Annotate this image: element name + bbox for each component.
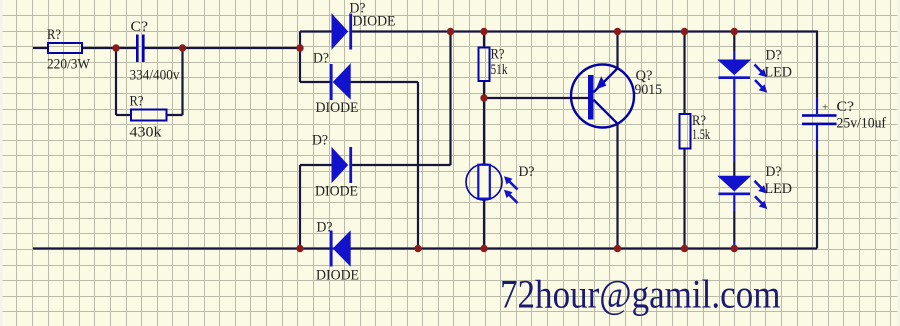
resistor R2 bbox=[131, 110, 167, 121]
wire R3 leg x484 bbox=[483, 32, 485, 249]
svg-text:DIODE: DIODE bbox=[316, 100, 359, 116]
junction node main-C1-right bbox=[179, 44, 186, 51]
svg-text:D?: D? bbox=[766, 48, 782, 64]
wire base y98 bbox=[484, 97, 588, 99]
wire LED chain x734.3 bbox=[733, 32, 735, 243]
svg-text:+: + bbox=[822, 102, 828, 114]
svg-text:D?: D? bbox=[317, 220, 333, 236]
svg-text:220/3W: 220/3W bbox=[47, 57, 91, 73]
svg-text:1.5k: 1.5k bbox=[692, 127, 710, 143]
junction node top rail D3 bbox=[447, 28, 454, 35]
svg-text:R?: R? bbox=[491, 47, 505, 63]
wire D3 cathode riser x450.5 bbox=[449, 32, 451, 166]
wire D2 line bbox=[300, 81, 418, 83]
wire bottom rail bbox=[33, 247, 817, 249]
resistor R1 bbox=[48, 43, 82, 53]
svg-text:DIODE: DIODE bbox=[353, 14, 396, 30]
wire D3 line bbox=[300, 164, 451, 166]
junction node top rail R3 bbox=[480, 28, 487, 35]
wire bridge AC riser upper x300 bbox=[299, 32, 301, 83]
junction node bottom rail collector bbox=[614, 245, 621, 252]
photoresistor D5 bbox=[466, 164, 502, 200]
LED D7 bbox=[719, 176, 751, 195]
wire C1 branch right riser bbox=[181, 48, 183, 115]
wire right rail x817 bbox=[816, 31, 818, 249]
diode D3 bbox=[332, 147, 352, 183]
wire D1 anode stub bbox=[300, 30, 333, 32]
svg-text:25v/10uf: 25v/10uf bbox=[837, 116, 887, 132]
svg-text:D?: D? bbox=[519, 164, 535, 180]
junction node bottom rail LED bbox=[731, 245, 738, 252]
capacitor C1 bbox=[137, 35, 143, 63]
svg-text:D?: D? bbox=[313, 51, 329, 67]
svg-text:51k: 51k bbox=[491, 62, 508, 78]
svg-text:C?: C? bbox=[837, 99, 855, 115]
junction node bridge AC bottom bbox=[296, 245, 303, 252]
wire C1 branch bottom bbox=[116, 114, 183, 116]
junction node top rail emitter bbox=[614, 28, 621, 35]
transistor Q1 bbox=[571, 65, 634, 128]
capacitor C2 bbox=[802, 97, 837, 150]
resistor R4 bbox=[680, 114, 691, 149]
wire bridge AC riser lower x300 bbox=[299, 165, 301, 249]
wire C1 branch left riser bbox=[115, 48, 117, 115]
junction node main-C1-left bbox=[112, 44, 119, 51]
wire LED pin stubs blue bbox=[733, 51, 735, 249]
svg-text:LED: LED bbox=[765, 65, 793, 81]
LED D6 light arrows bbox=[755, 65, 768, 93]
svg-text:9015: 9015 bbox=[635, 82, 663, 98]
svg-text:C?: C? bbox=[131, 19, 149, 35]
photoresistor D5 light arrows bbox=[504, 176, 518, 203]
svg-text:D?: D? bbox=[766, 164, 782, 180]
resistor R3 bbox=[479, 48, 490, 82]
wire AC input top bbox=[33, 47, 301, 49]
junction node bottom rail x418 bbox=[414, 245, 421, 252]
wire top rail bbox=[352, 30, 817, 32]
junction node base bbox=[480, 94, 487, 101]
wire D2 cathode riser x418 bbox=[417, 82, 419, 249]
svg-text:D?: D? bbox=[312, 133, 328, 149]
diode D2 bbox=[330, 64, 350, 100]
junction node top rail LED bbox=[731, 28, 738, 35]
wire collector x617.5 bbox=[616, 124, 618, 249]
svg-text:R?: R? bbox=[47, 27, 61, 43]
svg-text:LED: LED bbox=[765, 181, 793, 197]
svg-text:334/400v: 334/400v bbox=[130, 68, 180, 84]
svg-text:DIODE: DIODE bbox=[315, 184, 358, 200]
junction node bottom rail R4 bbox=[681, 245, 688, 252]
junction node bottom rail x484 bbox=[480, 245, 487, 252]
wire R4 leg x684.5 bbox=[683, 32, 685, 249]
LED D6 bbox=[719, 60, 751, 79]
diode D1 bbox=[332, 14, 352, 50]
LED D7 light arrows bbox=[755, 181, 768, 209]
svg-text:DIODE: DIODE bbox=[316, 268, 359, 284]
svg-text:72hour@gamil.com: 72hour@gamil.com bbox=[500, 272, 781, 317]
diode D4 bbox=[330, 231, 350, 267]
junction node bridge AC top bbox=[296, 44, 303, 51]
svg-text:430k: 430k bbox=[130, 125, 163, 141]
junction node top rail R4 bbox=[681, 28, 688, 35]
svg-text:R?: R? bbox=[130, 94, 144, 110]
wire emitter x617.5 bbox=[616, 32, 618, 69]
